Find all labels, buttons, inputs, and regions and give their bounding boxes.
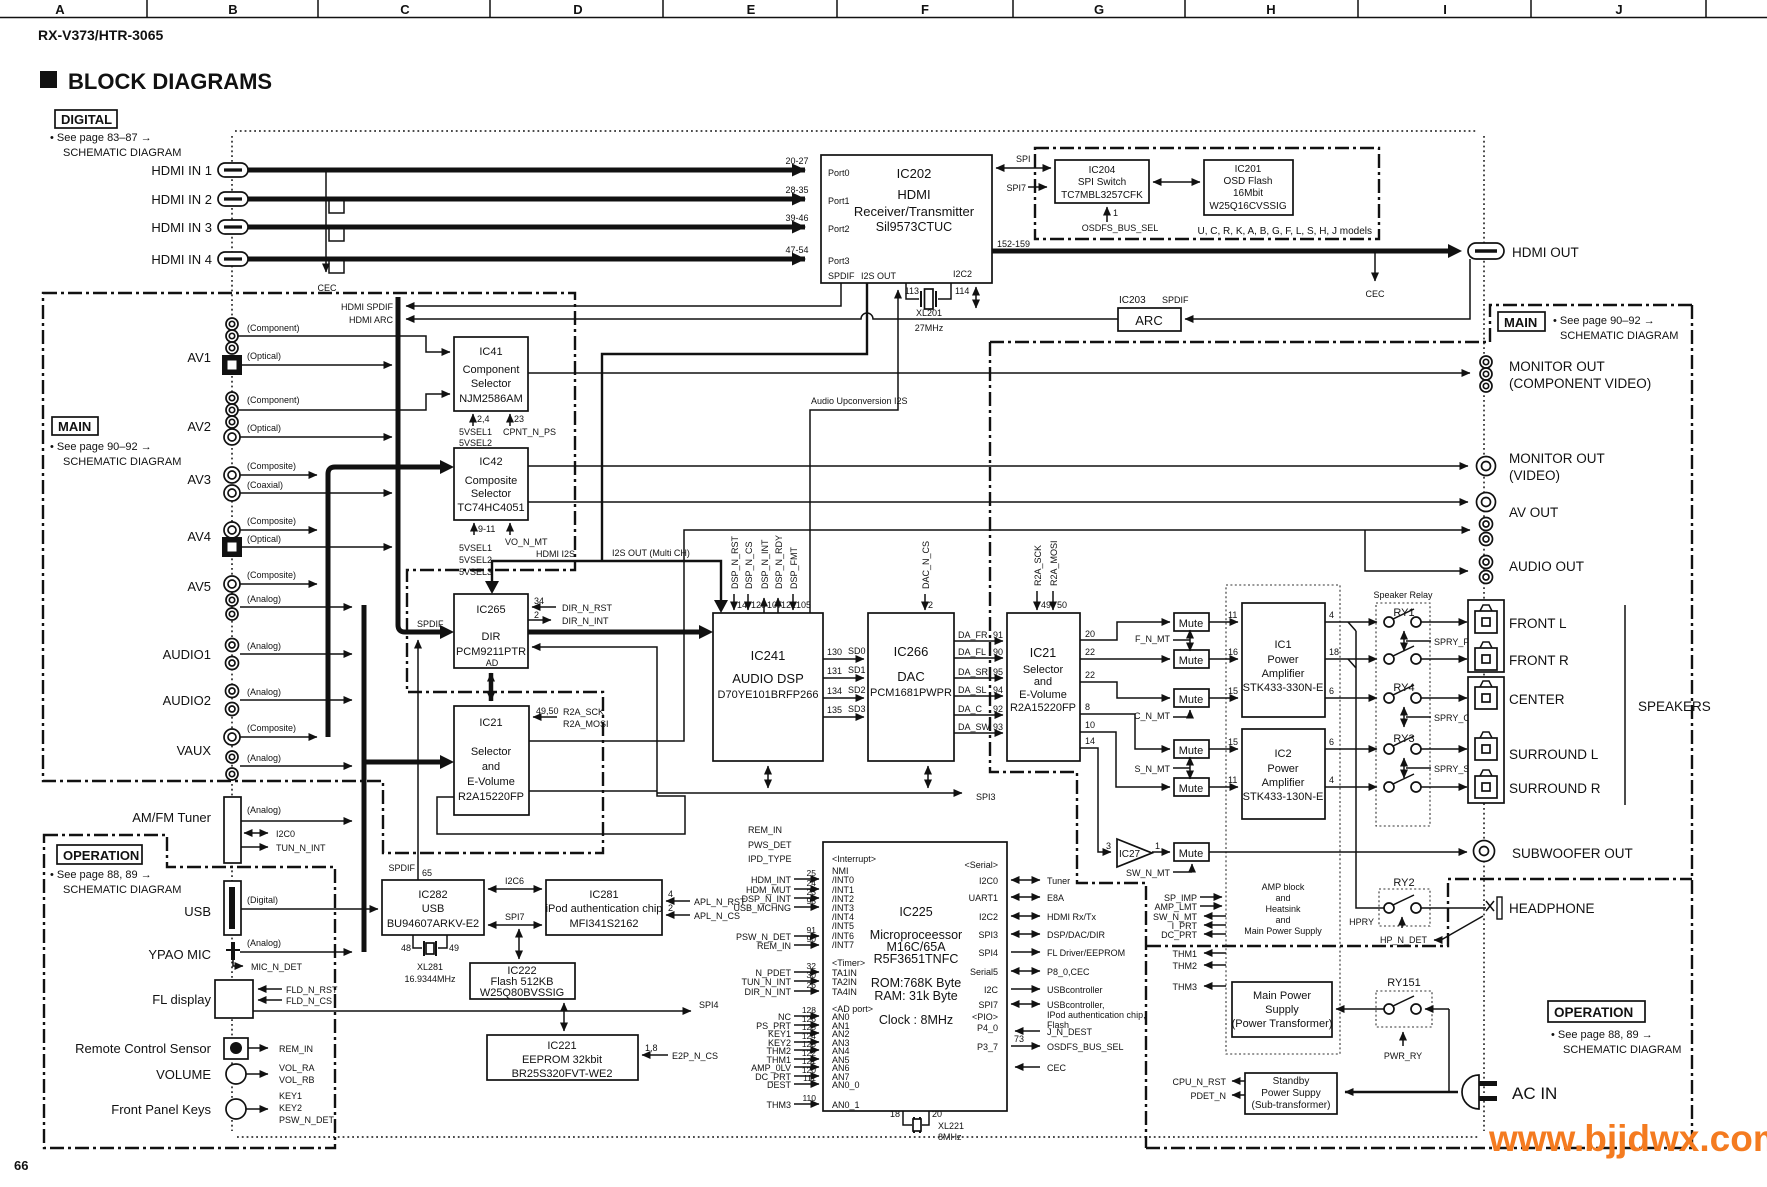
svg-text:E-Volume: E-Volume: [467, 776, 515, 788]
wire RY151 to Main Power Supply: [1336, 1008, 1384, 1010]
svg-text:Selector: Selector: [471, 488, 512, 500]
wire R2A_MOSI stub: [1052, 591, 1054, 610]
svg-text:131: 131: [827, 666, 842, 676]
svg-text:Power Suppy: Power Suppy: [1261, 1088, 1320, 1099]
svg-text:NJM2586AM: NJM2586AM: [459, 393, 523, 405]
svg-text:<Serial>: <Serial>: [964, 860, 998, 870]
svg-text:SPDIF: SPDIF: [388, 863, 415, 873]
wire tuner TUN_N_INT: [241, 846, 268, 848]
wire IC21 pin22 to Mute2: [1080, 658, 1170, 660]
svg-text:27MHz: 27MHz: [915, 323, 944, 333]
DIGITAL region label: [50, 110, 181, 159]
svg-text:DC_PRT: DC_PRT: [1161, 930, 1197, 940]
wire I2S OUT (Multi CH) branch to IC241: [602, 561, 721, 603]
relay RY1 front R contact: [1384, 646, 1421, 664]
svg-text:Tuner: Tuner: [1047, 876, 1070, 886]
svg-text:Mute: Mute: [1179, 848, 1203, 860]
wire REM_IN: [248, 1047, 268, 1049]
svg-text:5VSEL1: 5VSEL1: [459, 543, 492, 553]
svg-text:SCHEMATIC DIAGRAM: SCHEMATIC DIAGRAM: [63, 884, 181, 896]
svg-text:HEADPHONE: HEADPHONE: [1509, 901, 1595, 916]
wire IC202 HDMI OUT thick: [992, 249, 1448, 254]
page header grid line: [0, 17, 1767, 19]
relay RY2 contact: [1384, 895, 1421, 913]
svg-text:• See page 88, 89 →: • See page 88, 89 →: [50, 869, 152, 881]
svg-text:iPod authentication chip: iPod authentication chip: [546, 903, 663, 915]
svg-text:RAM: 31k Byte: RAM: 31k Byte: [874, 989, 957, 1003]
connector AV1 component: [226, 318, 238, 330]
wire PDET_N: [1232, 1094, 1245, 1096]
svg-text:(Composite): (Composite): [247, 461, 296, 471]
wire record loop IC21 to IC265: [437, 647, 685, 834]
wire IC225 serial E8A: [1011, 896, 1040, 898]
svg-text:SD2: SD2: [848, 685, 866, 695]
wire SPI7 IC282 to IC281: [488, 924, 542, 926]
svg-text:22: 22: [1085, 647, 1095, 657]
svg-text:<PIO>: <PIO>: [972, 1012, 998, 1022]
wire IC225 pin 124 KEY2: [794, 1041, 819, 1043]
block IC203 ARC: [1118, 295, 1189, 331]
svg-text:ARC: ARC: [1135, 313, 1162, 328]
svg-text:I: I: [1443, 2, 1447, 17]
wire SD3 IC241 to IC266: [823, 716, 864, 718]
svg-text:VO_N_MT: VO_N_MT: [505, 537, 548, 547]
svg-text:CEC: CEC: [317, 283, 337, 293]
speaker terminal SURROUND R: [1475, 770, 1497, 798]
svg-text:F: F: [921, 2, 929, 17]
svg-text:I2C: I2C: [984, 985, 999, 995]
svg-text:SUBWOOFER OUT: SUBWOOFER OUT: [1512, 846, 1633, 861]
svg-text:Main Power: Main Power: [1253, 990, 1311, 1002]
svg-text:THM3: THM3: [1173, 982, 1198, 992]
svg-text:IC225: IC225: [899, 905, 932, 919]
svg-text:THM1: THM1: [1173, 949, 1198, 959]
svg-text:SCHEMATIC DIAGRAM: SCHEMATIC DIAGRAM: [1563, 1044, 1681, 1056]
wire DSP_N_RST stub: [733, 594, 735, 610]
svg-text:49,50: 49,50: [536, 706, 559, 716]
wire HDMI I2S branch to IC265: [492, 561, 602, 584]
wire audio output IC21 to AV/AUDIO OUT: [529, 530, 1470, 741]
wire SW_N_MT mute control: [1191, 864, 1193, 872]
chassis dotted border top: [235, 130, 1478, 132]
svg-text:135: 135: [827, 705, 842, 715]
wire SPI between IC202 and IC204: [996, 167, 1051, 169]
wire AV3 coaxial to SPDIF bus: [240, 492, 392, 494]
relay RY3 surround R contact: [1384, 774, 1421, 792]
svg-text:AMP_LMT: AMP_LMT: [1154, 902, 1197, 912]
block Standby Power Supply: [1245, 1073, 1337, 1114]
svg-text:and: and: [1275, 915, 1290, 925]
wire IC202 SPDIF to bus (HDMI SPDIF): [406, 283, 841, 306]
svg-text:Main Power Supply: Main Power Supply: [1244, 926, 1322, 936]
wire R2A_SCK R2A_MOSI into IC21: [533, 716, 557, 718]
svg-text:R2A_MOSI: R2A_MOSI: [1049, 540, 1059, 586]
svg-text:G: G: [1094, 2, 1104, 17]
svg-text:E-Volume: E-Volume: [1019, 689, 1067, 701]
svg-text:RY151: RY151: [1387, 977, 1420, 989]
svg-text:IC27: IC27: [1119, 849, 1141, 860]
op-amp IC202 HDMI Receiver/Transmitter: [821, 155, 992, 283]
svg-text:AV5: AV5: [187, 579, 211, 594]
wire relay to speaker terminal: [1421, 658, 1467, 660]
svg-text:E8A: E8A: [1047, 893, 1064, 903]
svg-text:2: 2: [668, 903, 673, 913]
svg-text:105: 105: [796, 600, 811, 610]
svg-text:OPERATION: OPERATION: [1554, 1005, 1633, 1020]
svg-text:SCHEMATIC DIAGRAM: SCHEMATIC DIAGRAM: [1560, 330, 1678, 342]
connector AC IN plug: [1462, 1075, 1497, 1109]
wire IC225 serial USBcontroller,: [1011, 1003, 1040, 1005]
connector AV5 analog R: [226, 608, 238, 620]
svg-text:I2C0: I2C0: [979, 876, 998, 886]
connector VAUX composite: [224, 729, 240, 745]
svg-text:DSP_N_RST: DSP_N_RST: [730, 535, 740, 589]
svg-text:5VSEL1: 5VSEL1: [459, 427, 492, 437]
svg-text:91: 91: [993, 630, 1003, 640]
svg-text:15: 15: [1228, 686, 1238, 696]
wire CPU_N_RST: [1232, 1080, 1245, 1082]
svg-text:RY2: RY2: [1393, 877, 1414, 889]
svg-text:OPERATION: OPERATION: [63, 848, 139, 863]
svg-text:IC21: IC21: [1030, 646, 1056, 660]
svg-text:CEC: CEC: [1365, 289, 1385, 299]
wire HPRY coil: [1401, 917, 1403, 928]
wire VAUX composite to video bus: [240, 736, 317, 738]
block IC221 EEPROM: [487, 1035, 638, 1080]
wire IC225 pin 24 HDM_MUT: [794, 888, 819, 890]
svg-text:STK433-330N-E: STK433-330N-E: [1243, 682, 1324, 694]
block Mute 4: [1174, 740, 1209, 758]
wire AUDIO2 to analog bus: [240, 699, 352, 701]
wire OSDFS_BUS_SEL into IC204: [1106, 207, 1108, 222]
svg-text:HPRY: HPRY: [1349, 917, 1374, 927]
svg-text:SPI3: SPI3: [978, 930, 998, 940]
wire AV4 optical to SPDIF bus: [241, 546, 392, 548]
connector AV4 composite: [224, 522, 240, 538]
svg-text:APL_N_RST: APL_N_RST: [694, 897, 746, 907]
svg-text:50: 50: [1057, 600, 1067, 610]
svg-text:OSDFS_BUS_SEL: OSDFS_BUS_SEL: [1047, 1042, 1124, 1052]
wire relay to speaker terminal: [1421, 786, 1467, 788]
svg-text:SPI3: SPI3: [976, 792, 996, 802]
svg-text:<Timer>: <Timer>: [832, 958, 865, 968]
svg-text:D70YE101BRFP266: D70YE101BRFP266: [718, 689, 819, 701]
svg-text:AUDIO DSP: AUDIO DSP: [732, 671, 804, 686]
connector HDMI IN 4: [218, 252, 248, 266]
svg-text:DA_SR: DA_SR: [958, 667, 989, 677]
connector HDMI IN 3: [218, 220, 248, 234]
svg-text:Composite: Composite: [465, 475, 518, 487]
crystal XL281: [401, 935, 459, 984]
connector VOLUME: [226, 1064, 246, 1084]
wire DSP_N_CS stub: [747, 594, 749, 610]
svg-text:APL_N_CS: APL_N_CS: [694, 911, 740, 921]
svg-text:KEY2: KEY2: [279, 1103, 302, 1113]
wire IC2 pin 6 to speaker relay: [1325, 748, 1377, 750]
svg-text:DAC_N_CS: DAC_N_CS: [921, 541, 931, 589]
wire IC21 right edge to record loop: [529, 790, 657, 792]
svg-text:16.9344MHz: 16.9344MHz: [404, 974, 456, 984]
wire CEC drop from HDMI OUT line: [1374, 251, 1376, 281]
svg-text:Speaker Relay: Speaker Relay: [1373, 590, 1433, 600]
svg-text:SPRY_F: SPRY_F: [1434, 637, 1469, 647]
svg-text:R5F3651TNFC: R5F3651TNFC: [874, 952, 959, 966]
svg-text:SPI4: SPI4: [978, 948, 998, 958]
svg-text:28-35: 28-35: [785, 185, 808, 195]
svg-text:CENTER: CENTER: [1509, 692, 1565, 707]
svg-text:121: 121: [781, 600, 796, 610]
svg-text:(Optical): (Optical): [247, 534, 281, 544]
wire IC1 pin 6 to speaker relay: [1325, 697, 1377, 699]
svg-text:30: 30: [807, 970, 817, 980]
svg-text:FL Driver/EEPROM: FL Driver/EEPROM: [1047, 948, 1125, 958]
chassis dotted border right (rear panel connector line): [1483, 136, 1485, 1131]
svg-text:2,4: 2,4: [477, 414, 490, 424]
svg-text:HDMI IN 3: HDMI IN 3: [151, 220, 212, 235]
connector HDMI IN 2: [218, 192, 248, 206]
svg-text:RY4: RY4: [1393, 682, 1414, 694]
OPERATION left region dash-dot border: [44, 835, 335, 1148]
wire RY2 to headphone jack: [1421, 907, 1486, 909]
svg-text:Mute: Mute: [1179, 618, 1203, 630]
svg-text:1,8: 1,8: [645, 1043, 658, 1053]
IC225 right pin names: [964, 860, 998, 1052]
section title BLOCK DIAGRAMS: [40, 69, 272, 94]
wire IC225 serial FL Driver/EEPROM: [1011, 951, 1040, 953]
svg-text:93: 93: [993, 722, 1003, 732]
wire IC202 I2C2 stub: [975, 287, 977, 308]
svg-text:FLD_N_CS: FLD_N_CS: [286, 996, 332, 1006]
svg-text:SD1: SD1: [848, 665, 866, 675]
svg-text:IC202: IC202: [897, 166, 932, 181]
wire AUDIO1 to analog bus: [240, 653, 352, 655]
svg-text:(Composite): (Composite): [247, 723, 296, 733]
svg-text:IC2: IC2: [1274, 748, 1291, 760]
wire SPI7 down to IC222: [518, 929, 520, 959]
svg-text:90: 90: [993, 647, 1003, 657]
wire digital SPDIF bus to IC265: [398, 297, 440, 632]
relay RY4 center contact: [1384, 685, 1421, 703]
wire DA_FL IC266 to IC21: [954, 657, 1003, 659]
block IC21 Selector and E-Volume (input side): [454, 706, 529, 815]
svg-text:DA_FR: DA_FR: [958, 630, 988, 640]
svg-text:FLD_N_RST: FLD_N_RST: [286, 985, 338, 995]
wire R2A_SCK stub: [1036, 591, 1038, 610]
MAIN right region dash-dot border right edge: [1146, 305, 1692, 1148]
wire IC42 5VSEL pins: [473, 523, 475, 535]
svg-text:16: 16: [1228, 647, 1238, 657]
block IC2 Power Amplifier: [1242, 729, 1325, 819]
svg-text:HDMI: HDMI: [897, 187, 930, 202]
svg-text:OSDFS_BUS_SEL: OSDFS_BUS_SEL: [1082, 223, 1159, 233]
svg-text:PDET_N: PDET_N: [1190, 1091, 1226, 1101]
svg-text:(Analog): (Analog): [247, 687, 281, 697]
block IC225 Microprocessor: [823, 842, 1007, 1111]
svg-text:I2C2: I2C2: [979, 912, 998, 922]
svg-text:114: 114: [955, 286, 969, 296]
svg-text:HDMI IN 4: HDMI IN 4: [151, 252, 212, 267]
svg-text:SPI7: SPI7: [1006, 183, 1026, 193]
MAIN left region dash-dot border: [43, 293, 603, 853]
svg-text:SPEAKERS: SPEAKERS: [1638, 699, 1711, 714]
wire Mute to IC1 pin 16: [1209, 658, 1238, 660]
chassis dotted border left (front/rear connector line): [231, 136, 233, 1131]
wire IC225 pin 120 DC_PRT: [794, 1075, 819, 1077]
svg-text:Remote Control Sensor: Remote Control Sensor: [75, 1041, 212, 1056]
speaker terminal box center/surround: [1468, 677, 1504, 803]
connector AV2 component: [226, 416, 238, 428]
svg-text:11: 11: [1228, 610, 1237, 620]
wire IC282 SPDIF up to DIR input: [417, 640, 419, 880]
wire IC265 to IC241 thick: [528, 630, 699, 635]
speaker terminal FRONT R: [1475, 642, 1497, 670]
svg-text:MAIN: MAIN: [58, 419, 91, 434]
wire IC225 pin 25 HDM_INT: [794, 878, 819, 880]
svg-text:www.bjjdwx.com: www.bjjdwx.com: [1488, 1118, 1767, 1159]
svg-text:THM2: THM2: [1173, 961, 1198, 971]
wire IC1 pin 18 to speaker relay: [1325, 658, 1377, 660]
MAIN left region label: [50, 417, 181, 468]
svg-text:FRONT L: FRONT L: [1509, 616, 1567, 631]
svg-text:TUN_N_INT: TUN_N_INT: [276, 843, 326, 853]
svg-text:AN0_1: AN0_1: [832, 1100, 860, 1110]
svg-text:Power: Power: [1267, 654, 1299, 666]
svg-text:SPRY_C: SPRY_C: [1434, 713, 1470, 723]
wire KEY1 KEY2 PSW_N_DET: [246, 1108, 268, 1110]
wire DA_SL IC266 to IC21: [954, 695, 1003, 697]
connector AUDIO2 L: [226, 685, 239, 698]
wire DIR_N_RST into IC265: [532, 606, 556, 608]
relay RY1 front L contact: [1384, 609, 1421, 627]
svg-text:RY1: RY1: [1393, 607, 1414, 619]
block IC282 USB: [382, 880, 484, 935]
wire FLD_N_RST: [258, 988, 282, 990]
svg-text:DIR: DIR: [482, 631, 501, 643]
connector MONITOR OUT video: [1477, 457, 1496, 476]
svg-text:DSP_N_RDY: DSP_N_RDY: [774, 535, 784, 589]
wire DSP_N_INT stub: [763, 598, 765, 613]
connector AV2 component: [226, 392, 238, 404]
relay RY3 surround L contact: [1384, 736, 1421, 754]
svg-text:AV2: AV2: [187, 419, 211, 434]
wire IC225 pin 110 THM3: [794, 1103, 819, 1105]
svg-text:P8_0,CEC: P8_0,CEC: [1047, 967, 1090, 977]
svg-text:15: 15: [1228, 737, 1238, 747]
svg-text:/INT5: /INT5: [832, 921, 854, 931]
svg-text:I2S OUT: I2S OUT: [861, 271, 897, 281]
svg-text:HDMI OUT: HDMI OUT: [1512, 245, 1579, 260]
wire AMP_LMT: [1200, 905, 1222, 907]
svg-text:A: A: [55, 2, 65, 17]
block IC201 OSD Flash: [1204, 160, 1293, 215]
wire IC225 pin 30 TUN_N_INT: [794, 980, 819, 982]
svg-text:(Composite): (Composite): [247, 516, 296, 526]
wire DAC_N_CS stub: [924, 594, 926, 610]
speaker terminal box front: [1468, 600, 1504, 672]
svg-text:1: 1: [1155, 841, 1160, 851]
svg-text:and: and: [482, 761, 500, 773]
svg-text:10: 10: [1085, 720, 1095, 730]
svg-text:Mute: Mute: [1179, 783, 1203, 795]
svg-text:USB: USB: [422, 903, 445, 915]
svg-text:I2C2: I2C2: [953, 269, 972, 279]
block Main Power Supply: [1232, 982, 1333, 1037]
svg-text:2: 2: [534, 610, 539, 620]
svg-text:14: 14: [1085, 736, 1095, 746]
svg-text:66: 66: [14, 1158, 28, 1173]
svg-text:MONITOR OUT: MONITOR OUT: [1509, 451, 1605, 466]
svg-text:48: 48: [401, 943, 411, 953]
svg-text:XL281: XL281: [417, 962, 443, 972]
svg-text:• See page 88, 89 →: • See page 88, 89 →: [1551, 1029, 1653, 1041]
wire tuner analog to analog bus: [241, 820, 352, 822]
wire IC41 5VSEL pins: [472, 414, 474, 426]
connector HEADPHONE jack: [1486, 897, 1502, 919]
wire relay to speaker terminal: [1421, 748, 1467, 750]
svg-text:CEC: CEC: [1047, 1063, 1067, 1073]
svg-text:P4_0: P4_0: [977, 1023, 998, 1033]
wire Mute to IC1 pin 11: [1209, 621, 1238, 623]
relay RY2 headphone: [1379, 889, 1430, 926]
wire SPI7 into IC204: [1028, 186, 1047, 188]
wire IC225 pin 111 DEST: [794, 1083, 819, 1085]
wire DSP_FMT stub: [792, 594, 794, 610]
svg-text:3: 3: [1106, 841, 1111, 851]
wire FLD_N_CS: [258, 999, 282, 1001]
wire AV2 optical to SPDIF bus: [240, 436, 392, 438]
svg-text:U, C, R, K, A, B, G, F, L, S,: U, C, R, K, A, B, G, F, L, S, H, J model…: [1198, 226, 1373, 237]
svg-text:HP_N_DET: HP_N_DET: [1380, 935, 1428, 945]
header column ticks: [147, 0, 1706, 17]
wire IC225 serial DSP/DAC/DIR: [1011, 933, 1040, 935]
svg-text:DSP_N_INT: DSP_N_INT: [760, 539, 770, 589]
svg-text:IC266: IC266: [894, 644, 929, 659]
wire Mute to IC1 pin 15: [1209, 697, 1238, 699]
svg-text:R2A_SCK: R2A_SCK: [563, 707, 604, 717]
svg-text:5VSEL3: 5VSEL3: [459, 567, 492, 577]
wire YPAO analog to analog bus: [240, 951, 352, 953]
svg-text:DIR_N_RST: DIR_N_RST: [562, 603, 613, 613]
svg-text:DIR_N_INT: DIR_N_INT: [562, 616, 609, 626]
connector SUBWOOFER OUT: [1474, 841, 1495, 862]
wire SPRY_F coil: [1403, 631, 1405, 651]
svg-text:(Coaxial): (Coaxial): [247, 480, 283, 490]
svg-text:Sil9573CTUC: Sil9573CTUC: [876, 220, 952, 234]
svg-text:HDMI ARC: HDMI ARC: [349, 315, 394, 325]
op-amp IC27 subwoofer buffer: [1106, 839, 1160, 867]
svg-text:SPI Switch: SPI Switch: [1078, 177, 1126, 188]
svg-text:PCM9211PTR: PCM9211PTR: [456, 646, 526, 658]
wire ARC to SPDIF bus (HDMI ARC): [406, 313, 1118, 319]
svg-text:DEST: DEST: [767, 1080, 792, 1090]
wire AV1 optical to SPDIF bus: [241, 364, 392, 366]
svg-text:Mute: Mute: [1179, 694, 1203, 706]
wire MIC_N_DET: [233, 960, 243, 966]
connector USB: [224, 881, 241, 935]
svg-text:IC282: IC282: [418, 889, 447, 901]
speaker terminal CENTER: [1475, 681, 1497, 709]
svg-text:F_N_MT: F_N_MT: [1135, 634, 1171, 644]
wire HDMI CEC common vertical: [325, 171, 327, 272]
svg-text:8MHz: 8MHz: [938, 1132, 962, 1142]
svg-text:USB: USB: [184, 904, 211, 919]
svg-text:DAC: DAC: [897, 669, 924, 684]
svg-text:IC241: IC241: [751, 648, 786, 663]
wire IC225 pin 90 REM_IN: [794, 944, 819, 946]
svg-text:(Component): (Component): [247, 323, 300, 333]
wire DC_PRT: [1204, 933, 1226, 935]
svg-text:AN0_0: AN0_0: [832, 1080, 860, 1090]
